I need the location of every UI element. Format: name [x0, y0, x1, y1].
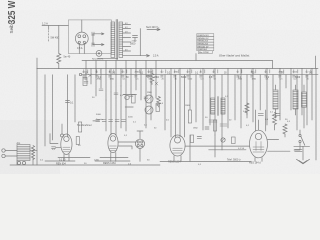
svg-text:Tonabnehmer: Tonabnehmer	[77, 124, 92, 127]
V2 cathode circle	[110, 136, 115, 141]
svg-text:2MΩ: 2MΩ	[279, 72, 284, 74]
choke leads	[276, 85, 305, 128]
V1 pins	[64, 154, 69, 161]
tuning cap circle 2	[145, 106, 153, 114]
svg-text:2,5 A: 2,5 A	[153, 55, 159, 58]
grid cap tube1	[61, 134, 64, 137]
cap on wire x67	[66, 101, 70, 103]
bus A corner drop	[272, 61, 274, 69]
bottom segment 3	[58, 156, 128, 158]
svg-text:RENS 1204: RENS 1204	[168, 161, 181, 164]
switch right	[299, 134, 301, 136]
wire drop to barretter coil	[58, 26, 60, 54]
bus line A	[82, 60, 273, 62]
resistor box V3 right	[190, 135, 193, 143]
svg-text:0,3 A: 0,3 A	[77, 47, 83, 50]
power unit enclosure box	[68, 20, 111, 54]
coupling box	[232, 137, 236, 144]
capacitor mid 3	[275, 114, 280, 116]
left main vertical	[36, 58, 38, 165]
choke coil left	[273, 90, 278, 109]
V3 grid lines	[173, 148, 183, 153]
wire between arrows	[92, 34, 94, 45]
T1 secondary taps	[123, 25, 131, 52]
switch arrow upper	[93, 33, 104, 35]
svg-text:RENS1204: RENS1204	[198, 41, 209, 43]
short top segment	[98, 57, 118, 59]
T1 secondary	[119, 22, 123, 58]
smoothing capacitor C1	[133, 36, 138, 42]
svg-text:0,1 50: 0,1 50	[238, 148, 245, 150]
output transformer winding 2	[302, 92, 307, 107]
wire mains top (1,2A)	[42, 25, 68, 27]
terminal circles	[17, 161, 20, 164]
svg-text:RENS 1264: RENS 1264	[103, 162, 116, 165]
verticals right section	[165, 69, 316, 161]
wire tube1 left	[50, 134, 58, 144]
svg-text:RGN1064: RGN1064	[198, 49, 208, 51]
tap labels	[125, 23, 137, 52]
dashed linkage	[48, 31, 50, 43]
tube socket S1	[135, 139, 144, 148]
junction dots	[36, 68, 316, 75]
ground symbol	[297, 146, 310, 164]
V3 cathode circle	[175, 137, 181, 143]
title Seibt 325 W	[6, 0, 17, 33]
svg-text:2MΩ: 2MΩ	[238, 78, 243, 80]
tube V3 side wire	[185, 145, 249, 147]
V4 pins	[255, 158, 262, 162]
svg-text:2MΩ: 2MΩ	[147, 92, 152, 94]
zigzag resistor mid	[245, 103, 249, 115]
svg-text:1MΩ: 1MΩ	[174, 72, 179, 74]
svg-text:5m 40: 5m 40	[64, 56, 71, 59]
antenna coil box	[17, 145, 30, 161]
svg-text:Ant.: Ant.	[17, 142, 21, 145]
voltage table	[197, 34, 214, 54]
socket lead up	[137, 131, 143, 139]
output transformer winding 1	[293, 90, 298, 109]
tube V4 envelope	[250, 130, 268, 158]
bottom segment 2	[95, 160, 130, 162]
svg-text:RENS1264: RENS1264	[198, 44, 209, 46]
cluster under bus 2	[147, 74, 158, 86]
component clutter row	[83, 70, 311, 81]
heater wire arrow	[123, 55, 150, 57]
decoupling caps row	[96, 120, 126, 122]
table riser	[195, 54, 197, 61]
bottom segment 1	[45, 160, 75, 162]
bottom labels	[40, 159, 202, 166]
coil wires	[17, 151, 37, 165]
tube V3 envelope	[170, 135, 185, 156]
T1 core	[116, 20, 117, 60]
svg-text:Netzanschl.: Netzanschl.	[92, 58, 104, 61]
resistor box 1	[188, 110, 191, 123]
V4 inner grid	[253, 142, 264, 153]
tube V2 envelope	[108, 133, 118, 152]
tube V4 side wire	[268, 138, 279, 140]
scattered value labels	[52, 92, 288, 151]
svg-text:2MΩ: 2MΩ	[154, 77, 159, 79]
mid verticals left	[45, 75, 75, 146]
zigzag resistor right 2	[273, 113, 277, 131]
IF transformer core	[217, 97, 218, 116]
svg-text:Telef. 5000 Ω: Telef. 5000 Ω	[227, 159, 241, 162]
terminal wires	[5, 151, 17, 157]
svg-text:Über Nadel und Maßst.: Über Nadel und Maßst.	[219, 54, 250, 58]
wires into tube2	[106, 86, 126, 135]
svg-text:5000: 5000	[96, 114, 102, 116]
zigzag resistor mid-left	[157, 97, 161, 108]
V2 pins	[111, 153, 116, 162]
tuning cap circle 1	[145, 95, 153, 103]
tube V4 anode lead	[255, 110, 265, 131]
switch leads	[294, 130, 300, 150]
socket lead down	[139, 148, 141, 161]
svg-text:1MΩ: 1MΩ	[193, 127, 198, 129]
zigzag resistor right	[283, 124, 287, 137]
svg-text:Netz 220 V~: Netz 220 V~	[146, 26, 160, 29]
V5 filament pins	[78, 41, 80, 43]
svg-text:RES164 4V: RES164 4V	[198, 46, 209, 48]
cluster under bus 1	[79, 73, 91, 85]
coupling line 2	[209, 149, 246, 151]
cap left of tube1	[52, 147, 61, 149]
cap mark	[197, 137, 201, 139]
resistor box left-mid 2	[76, 137, 79, 145]
bottom bus right	[160, 161, 251, 163]
tube V3 bottom leads	[190, 115, 222, 161]
resistor R-line vertical	[48, 26, 50, 30]
svg-text:1MΩ: 1MΩ	[110, 78, 115, 80]
svg-text:Tonabn.: Tonabn.	[96, 119, 104, 121]
V5 top lead	[81, 20, 83, 32]
capacitor mid 2	[258, 114, 263, 116]
cluster box x156	[156, 104, 159, 112]
short link segments	[93, 95, 133, 121]
transformer T1 primary	[111, 22, 115, 58]
switch arrow lower	[93, 44, 104, 46]
earth terminal	[2, 154, 5, 157]
aerial terminal	[2, 149, 5, 152]
svg-text:5W 40Ω: 5W 40Ω	[51, 37, 60, 40]
trimmer cluster	[125, 95, 129, 99]
V1 grid lines	[63, 147, 70, 152]
pilot lamp La	[96, 51, 102, 57]
svg-text:RGN354 4V: RGN354 4V	[198, 35, 210, 37]
svg-text:2MΩ: 2MΩ	[135, 72, 140, 74]
V4 cathode circle	[255, 133, 261, 139]
svg-text:Ske 325W: Ske 325W	[199, 52, 209, 54]
grid cap wire	[61, 124, 63, 134]
bottom bus left	[10, 164, 160, 166]
mains arrow	[147, 28, 160, 30]
tube V1 envelope	[61, 134, 72, 154]
V1 cathode circle	[64, 136, 69, 141]
svg-text:5000: 5000	[181, 77, 187, 79]
HV feed wire	[139, 29, 141, 56]
ground wires	[268, 146, 310, 151]
svg-text:1,2 A: 1,2 A	[42, 22, 48, 26]
bus line B	[37, 68, 318, 70]
IF transformer winding B	[221, 98, 225, 114]
barretter coil L1	[57, 54, 61, 64]
bus line C	[82, 74, 318, 76]
svg-text:1MΩ: 1MΩ	[252, 78, 257, 80]
IF links	[209, 120, 227, 126]
right edge riser	[315, 56, 317, 69]
resistor box 3	[213, 120, 216, 131]
V5 anode circles	[78, 35, 81, 38]
wires tube2 to socket	[118, 142, 135, 149]
comb verticals section 1	[86, 61, 156, 129]
svg-text:1200: 1200	[94, 159, 100, 161]
comb caps	[84, 82, 148, 99]
svg-text:5000: 5000	[130, 42, 136, 45]
component labels row	[85, 72, 313, 78]
table text	[198, 35, 210, 54]
capacitor mid 1	[205, 127, 209, 129]
midband labels	[128, 111, 291, 129]
svg-text:REN904 1V: REN904 1V	[198, 38, 210, 40]
V3 pins	[174, 156, 181, 162]
svg-text:1MΩ: 1MΩ	[185, 105, 190, 107]
potentiometer P1	[221, 138, 225, 142]
V2 grid lines	[110, 146, 117, 151]
resistor box left-mid 1	[79, 122, 82, 132]
ground feed cap	[295, 149, 302, 151]
antenna zigzag coil	[31, 146, 34, 160]
IF transformer winding A	[211, 98, 215, 114]
svg-text:2MΩ: 2MΩ	[97, 78, 102, 80]
svg-text:325 W: 325 W	[6, 0, 17, 24]
rectifier tube V5 envelope	[75, 32, 88, 45]
